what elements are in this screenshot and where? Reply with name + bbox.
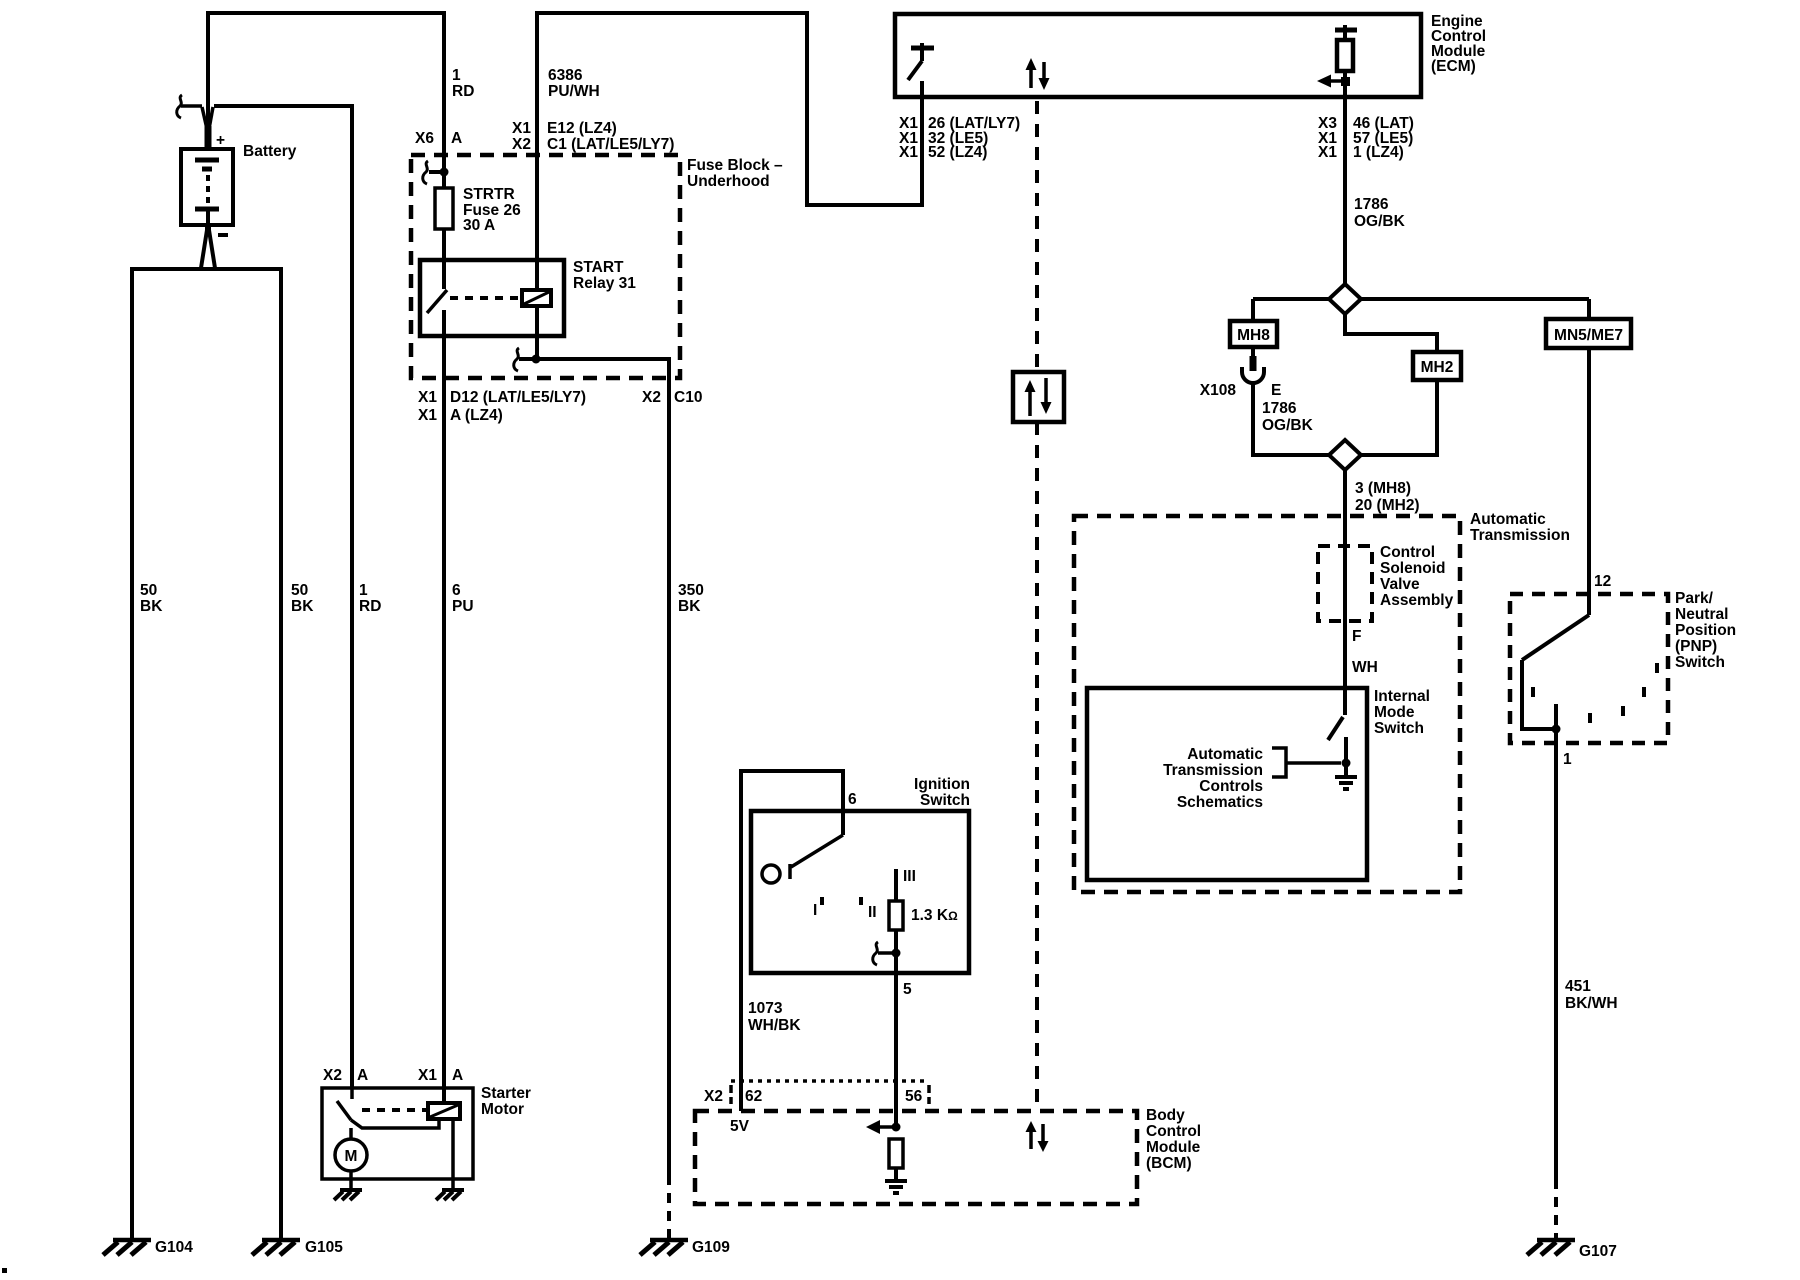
- svg-text:X108: X108: [1200, 382, 1237, 399]
- svg-text:G109: G109: [692, 1239, 730, 1256]
- svg-text:3 (MH8): 3 (MH8): [1355, 480, 1411, 497]
- svg-text:Controls: Controls: [1199, 778, 1263, 795]
- svg-text:X2: X2: [512, 136, 531, 153]
- svg-text:BK: BK: [678, 598, 701, 615]
- svg-text:WH/BK: WH/BK: [748, 1017, 801, 1034]
- svg-text:Valve: Valve: [1380, 576, 1420, 593]
- svg-text:C1 (LAT/LE5/LY7): C1 (LAT/LE5/LY7): [547, 136, 674, 153]
- svg-text:X1: X1: [512, 120, 531, 137]
- svg-text:(BCM): (BCM): [1146, 1155, 1192, 1172]
- svg-text:Motor: Motor: [481, 1101, 524, 1118]
- svg-text:RD: RD: [452, 83, 474, 100]
- svg-text:Body: Body: [1146, 1107, 1185, 1124]
- svg-text:Fuse Block –: Fuse Block –: [687, 157, 783, 174]
- svg-text:G107: G107: [1579, 1243, 1617, 1260]
- svg-text:BK: BK: [140, 598, 163, 615]
- svg-text:1: 1: [1563, 751, 1572, 768]
- svg-text:Internal: Internal: [1374, 688, 1430, 705]
- svg-text:52 (LZ4): 52 (LZ4): [928, 144, 987, 161]
- svg-text:6386: 6386: [548, 67, 583, 84]
- svg-text:MH2: MH2: [1421, 359, 1454, 376]
- svg-text:Battery: Battery: [243, 143, 297, 160]
- svg-text:(PNP): (PNP): [1675, 638, 1717, 655]
- svg-text:Schematics: Schematics: [1177, 794, 1263, 811]
- svg-text:G105: G105: [305, 1239, 343, 1256]
- svg-text:Switch: Switch: [1675, 654, 1725, 671]
- svg-text:A: A: [357, 1067, 368, 1084]
- svg-text:X1: X1: [418, 407, 437, 424]
- svg-text:MH8: MH8: [1237, 327, 1270, 344]
- svg-text:Mode: Mode: [1374, 704, 1415, 721]
- svg-text:Switch: Switch: [920, 792, 970, 809]
- svg-text:WH: WH: [1352, 659, 1378, 676]
- svg-text:56: 56: [905, 1088, 923, 1105]
- svg-text:5V: 5V: [730, 1118, 750, 1135]
- svg-text:5: 5: [903, 981, 912, 998]
- svg-text:Control: Control: [1380, 544, 1435, 561]
- svg-text:X1: X1: [1318, 144, 1337, 161]
- svg-text:50: 50: [291, 582, 308, 599]
- svg-text:X6: X6: [415, 130, 434, 147]
- svg-text:1: 1: [359, 582, 368, 599]
- svg-text:A: A: [451, 130, 462, 147]
- svg-text:451: 451: [1565, 978, 1591, 995]
- svg-text:1 (LZ4): 1 (LZ4): [1353, 144, 1404, 161]
- svg-text:III: III: [903, 868, 916, 885]
- svg-text:1073: 1073: [748, 1000, 783, 1017]
- svg-text:20 (MH2): 20 (MH2): [1355, 497, 1420, 514]
- svg-text:62: 62: [745, 1088, 762, 1105]
- svg-text:Ignition: Ignition: [914, 776, 970, 793]
- svg-text:Solenoid: Solenoid: [1380, 560, 1445, 577]
- svg-text:PU: PU: [452, 598, 474, 615]
- svg-text:X1: X1: [899, 144, 918, 161]
- svg-text:6: 6: [452, 582, 461, 599]
- svg-text:PU/WH: PU/WH: [548, 83, 600, 100]
- svg-text:OG/BK: OG/BK: [1354, 213, 1406, 230]
- svg-text:X2: X2: [642, 389, 661, 406]
- svg-text:A: A: [452, 1067, 463, 1084]
- svg-text:Transmission: Transmission: [1163, 762, 1263, 779]
- svg-text:START: START: [573, 259, 624, 276]
- svg-text:1: 1: [452, 67, 461, 84]
- svg-text:(ECM): (ECM): [1431, 58, 1476, 75]
- svg-text:Position: Position: [1675, 622, 1736, 639]
- svg-text:E12 (LZ4): E12 (LZ4): [547, 120, 617, 137]
- svg-text:12: 12: [1594, 573, 1611, 590]
- svg-text:Automatic: Automatic: [1470, 511, 1546, 528]
- svg-text:Module: Module: [1146, 1139, 1201, 1156]
- svg-text:30 A: 30 A: [463, 217, 495, 234]
- svg-text:Assembly: Assembly: [1380, 592, 1454, 609]
- svg-text:Relay 31: Relay 31: [573, 275, 636, 292]
- svg-text:1.3 KΩ: 1.3 KΩ: [911, 907, 958, 924]
- svg-text:Starter: Starter: [481, 1085, 531, 1102]
- svg-text:X1: X1: [418, 389, 437, 406]
- svg-text:D12 (LAT/LE5/LY7): D12 (LAT/LE5/LY7): [450, 389, 586, 406]
- svg-text:50: 50: [140, 582, 157, 599]
- svg-text:X2: X2: [704, 1088, 723, 1105]
- svg-text:X2: X2: [323, 1067, 342, 1084]
- svg-text:1786: 1786: [1354, 196, 1389, 213]
- svg-text:C10: C10: [674, 389, 702, 406]
- svg-text:STRTR: STRTR: [463, 186, 515, 203]
- svg-text:G104: G104: [155, 1239, 193, 1256]
- svg-text:Automatic: Automatic: [1187, 746, 1263, 763]
- svg-text:MN5/ME7: MN5/ME7: [1554, 327, 1623, 344]
- svg-text:Switch: Switch: [1374, 720, 1424, 737]
- svg-text:RD: RD: [359, 598, 381, 615]
- svg-text:BK: BK: [291, 598, 314, 615]
- svg-text:I: I: [813, 902, 817, 919]
- svg-text:350: 350: [678, 582, 704, 599]
- svg-text:II: II: [868, 904, 877, 921]
- svg-text:OG/BK: OG/BK: [1262, 417, 1314, 434]
- svg-text:BK/WH: BK/WH: [1565, 995, 1618, 1012]
- svg-text:Underhood: Underhood: [687, 173, 770, 190]
- svg-text:1786: 1786: [1262, 400, 1297, 417]
- svg-text:E: E: [1271, 382, 1281, 399]
- svg-text:F: F: [1352, 628, 1361, 645]
- svg-text:Park/: Park/: [1675, 590, 1714, 607]
- svg-text:X1: X1: [418, 1067, 437, 1084]
- svg-text:Neutral: Neutral: [1675, 606, 1728, 623]
- svg-text:Control: Control: [1146, 1123, 1201, 1140]
- svg-text:A (LZ4): A (LZ4): [450, 407, 503, 424]
- svg-text:Transmission: Transmission: [1470, 527, 1570, 544]
- svg-text:+: +: [216, 132, 225, 149]
- svg-text:6: 6: [848, 791, 857, 808]
- svg-text:M: M: [345, 1148, 358, 1165]
